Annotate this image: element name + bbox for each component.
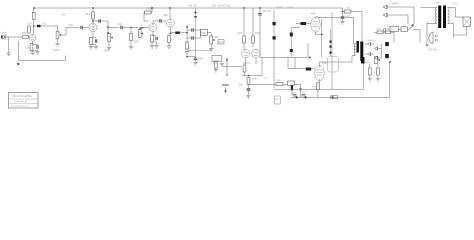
svg-text:250K: 250K: [104, 50, 110, 53]
resistor R21: [368, 68, 371, 75]
ground: jack sleeve: [7, 53, 11, 56]
node: tone node mid: [107, 32, 109, 34]
resistor R9 cathode: [151, 35, 154, 42]
wire: R10 legs: [168, 33, 170, 45]
diode D4: [375, 56, 378, 59]
resistor R10 cathode: [168, 36, 171, 43]
capacitor C4 grid: [81, 26, 82, 30]
wire: PI node vertical: [186, 25, 188, 43]
tube V1 triode: [29, 34, 36, 41]
node: plate junction: [33, 25, 35, 27]
node: bus blob: [17, 63, 19, 65]
svg-text:100K: 100K: [276, 80, 282, 82]
ground: VR4: [209, 48, 213, 51]
tube V2 triode: [89, 24, 97, 32]
input jack J1: [1, 35, 7, 40]
svg-text:Schematic (c): Schematic (c): [15, 100, 28, 103]
wire: VR4 bottom: [210, 44, 212, 48]
transformer T2 power core bar 1: [438, 6, 441, 29]
ground: V3 cathode: [150, 46, 154, 49]
wire: V3 cathode: [152, 32, 154, 36]
wire: VR2 to ground: [108, 41, 110, 47]
svg-text:to V3: to V3: [277, 6, 283, 9]
transformer T2 power core bar 2: [443, 6, 446, 29]
wire: PI plate drop right: [252, 8, 254, 36]
jack: speaker jack 2: [383, 13, 387, 17]
capacitor C25 tick: [329, 52, 331, 54]
svg-text:chassis: chassis: [313, 86, 321, 88]
ground: small left: [220, 64, 224, 67]
wire: T1 lower lead: [352, 56, 356, 63]
ground: bypass cap: [35, 52, 39, 55]
node: P2 top dot: [309, 57, 311, 59]
plug: AC plug: [429, 33, 438, 44]
svg-text:100K: 100K: [85, 14, 91, 16]
svg-text:100K: 100K: [237, 32, 243, 35]
wire: R12 to tube a: [243, 43, 245, 50]
svg-text:56K: 56K: [239, 85, 244, 87]
diode D1: [368, 42, 371, 45]
wire: tail to node: [244, 72, 246, 76]
tube P1 power pentode: [311, 17, 320, 32]
resistor R18 dropping: [344, 10, 351, 13]
resistor R24 series: [288, 81, 295, 85]
wire: joining bar: [242, 69, 262, 76]
node: stub dot: [186, 56, 188, 58]
capacitor C16 vertical: [194, 58, 198, 59]
capacitor C9 coupling: [160, 19, 161, 23]
node: B+ junction V4 plate: [169, 7, 171, 9]
wire: PI cathode chain: [245, 58, 247, 65]
ground: R7: [129, 47, 133, 50]
wire: VR3 wiper to V3 grid: [145, 27, 149, 29]
wire: ground bus horizontal: [18, 56, 65, 61]
node: decouple dot: [195, 12, 197, 14]
wire: R7 legs: [130, 28, 132, 47]
svg-text:SB-12 Small Box: SB-12 Small Box: [12, 94, 33, 98]
diode D3: [375, 47, 378, 50]
wire: C9 to V4 grid: [162, 20, 167, 22]
wire: jack sleeve drop: [8, 37, 10, 53]
arrow: down tick: [225, 88, 227, 93]
resistor R4 cathode: [30, 44, 33, 51]
capacitor C13 screen: [258, 14, 262, 15]
resistor R1 68K: [23, 36, 29, 39]
node: cathode node: [170, 32, 172, 34]
node: heater tap 1: [296, 97, 298, 99]
transformer T1 output core bar 2: [360, 42, 363, 62]
wire: C7 to R7: [123, 27, 132, 29]
wire: cathode pair links: [33, 44, 38, 52]
wire: R16 ground link: [215, 68, 217, 70]
node: R7 top: [130, 27, 132, 29]
svg-text:6V6: 6V6: [322, 62, 327, 65]
wire: decouple vertical: [195, 8, 197, 57]
wire: R15 to C15 to ground: [248, 85, 250, 96]
wire: filter cap drop: [342, 12, 344, 17]
wire: enclosure bottom: [274, 64, 364, 90]
wire: screen wires: [374, 32, 394, 42]
wire: R13 to tube b: [252, 43, 254, 47]
svg-text:500K: 500K: [133, 41, 139, 44]
svg-text:250 Vdc: 250 Vdc: [212, 5, 222, 8]
wire: caps to box: [187, 30, 201, 38]
wire: C4 to V2: [83, 27, 90, 29]
resistor R8 plate: [145, 11, 152, 14]
ground: C8: [154, 46, 158, 49]
wire: jack to grid resistor: [6, 36, 23, 38]
tube V3 triode: [149, 24, 157, 32]
resistor R23 series: [276, 83, 283, 86]
svg-text:100K: 100K: [146, 8, 152, 11]
resistor R19 screen: [377, 31, 383, 34]
svg-text:325 Vdc: 325 Vdc: [262, 9, 272, 13]
wire: x308 drop: [307, 43, 309, 57]
wire: screen drop lower: [259, 15, 261, 57]
wire: heater bus: [291, 62, 390, 97]
capacitor C32 black square: [385, 42, 389, 46]
capacitor C14b black: [273, 36, 276, 39]
wire: V4 cathode: [170, 27, 172, 33]
svg-text:NFB: NFB: [201, 32, 206, 35]
capacitor C20 black blob: [361, 57, 365, 64]
ground: V1 cathode: [30, 52, 34, 55]
wire: PI plate drop left: [243, 8, 245, 36]
potentiometer VR2 tone: [108, 34, 113, 42]
svg-text:SPKR: SPKR: [392, 3, 399, 6]
svg-text:12AX7: 12AX7: [243, 62, 251, 65]
node: B+ junction screen: [259, 7, 261, 9]
wire: bias link: [222, 66, 242, 68]
wire: tick chain vertical: [330, 30, 332, 56]
node: B+ junction V2 plate: [92, 7, 94, 9]
titleblock: border: [9, 93, 39, 109]
wire: B+ feed from PSU: [361, 12, 363, 42]
wire: jack2 run: [387, 15, 408, 24]
svg-text:to V5: to V5: [287, 6, 293, 9]
wire: pot top from C1: [57, 26, 59, 31]
diode D2: [368, 52, 371, 55]
box: network U1: [201, 30, 208, 36]
wire: V3 cathode links: [152, 35, 157, 45]
ground: C16: [193, 63, 197, 66]
winding: T2 secondary loops: [448, 8, 450, 24]
wire: rectifier links: [365, 44, 382, 58]
svg-text:120 VAC: 120 VAC: [428, 49, 438, 52]
wire: network bottom: [188, 49, 212, 51]
wire: R1 to V1 grid: [28, 36, 29, 38]
svg-text:Bias: Bias: [275, 99, 279, 101]
wire: B+ rail across top: [34, 8, 343, 12]
resistor R7: [130, 34, 133, 41]
wire: rail to V4 plate: [169, 8, 171, 19]
svg-text:16uF: 16uF: [345, 17, 351, 19]
box: shield rounded: [328, 57, 339, 73]
wire: cathode b drop: [256, 58, 262, 69]
wire: C6 to tone network: [101, 21, 108, 27]
svg-text:3.15V: 3.15V: [291, 93, 297, 95]
potentiometer VR4: [210, 34, 215, 44]
node: V2 plate tap: [92, 20, 94, 22]
potentiometer VR3: [138, 28, 144, 38]
capacitor C18 coupling to P2 black: [306, 68, 312, 71]
node: P1 cathode dot: [321, 34, 323, 36]
capacitor C29 black: [291, 85, 293, 90]
resistor R15: [247, 78, 250, 85]
svg-text:.002: .002: [117, 23, 122, 26]
wire: P1 cathode: [316, 19, 322, 57]
capacitor C19 filter: [341, 17, 345, 18]
ground: C19: [340, 22, 344, 25]
wire: hum links: [370, 64, 378, 79]
capacitor C10 coupling black: [175, 32, 180, 34]
svg-text:470: 470: [377, 29, 382, 31]
wire: V1 cathode: [32, 41, 34, 44]
lamp: small circle: [383, 29, 386, 32]
wire: tone node vertical: [107, 27, 109, 33]
svg-text:Revision/Update v2: Revision/Update v2: [11, 105, 30, 108]
wire: jack1 run: [387, 7, 414, 24]
wire: P2 plate up: [320, 62, 353, 65]
ground: PI tail: [246, 96, 250, 99]
wire: rail to R8 to V3 plate: [144, 8, 152, 21]
wire: pilot leads: [454, 17, 467, 38]
tube V4 triode: [167, 19, 175, 27]
transformer T1 output core bar 1: [357, 41, 359, 53]
svg-text:245: 245: [62, 15, 67, 17]
capacitor C27 heater: [293, 95, 297, 96]
ground: hum left: [368, 79, 372, 82]
capacitor C11: [192, 28, 193, 32]
resistor R22: [377, 68, 380, 75]
svg-text:6.3V: 6.3V: [453, 3, 458, 6]
wire: ground bus drop: [17, 41, 19, 61]
potentiometer VR5 hum: [375, 57, 381, 64]
wire: C16 stub: [187, 57, 196, 62]
capacitor C21 black: [290, 33, 293, 37]
node: rail dot V3: [151, 7, 153, 9]
capacitor C26 tick: [194, 16, 196, 18]
capacitor C2 cathode bypass: [37, 45, 38, 49]
wire: T2 secondary leads: [448, 8, 456, 36]
svg-text:340 Vdc: 340 Vdc: [221, 4, 231, 8]
wire: T2 primary leads: [421, 8, 437, 24]
resistor R20 screen 2: [386, 31, 391, 34]
wire: screen drop: [259, 8, 261, 14]
capacitor C15: [247, 89, 251, 90]
wire: C17 leads: [296, 23, 311, 25]
tube P2 power pentode: [315, 65, 324, 80]
wire: pot bottom to bus: [57, 39, 59, 43]
node: heater dot: [389, 61, 391, 63]
jack: speaker jack 1: [383, 5, 387, 9]
node: B+ junction PI plates: [243, 7, 245, 9]
capacitor C30 ticks: [299, 89, 302, 91]
ground: V2 cathode: [89, 47, 93, 50]
wire: grid chain vertical: [291, 27, 300, 56]
wire: arrow drop: [226, 73, 228, 76]
wire: trem line: [249, 84, 301, 97]
svg-text:250K: 250K: [214, 36, 220, 39]
resistor R13 PI plate b: [252, 36, 255, 43]
svg-text:3.15V: 3.15V: [300, 93, 306, 95]
wire: bias feed vertical: [273, 10, 275, 89]
svg-text:5K: 5K: [347, 7, 350, 10]
wire: PSU top rail: [343, 11, 363, 13]
svg-text:Input: Input: [1, 32, 7, 35]
svg-text:.022: .022: [42, 23, 47, 26]
capacitor C12: [192, 36, 193, 40]
capacitor C14 black: [273, 22, 276, 25]
svg-text:AUX: AUX: [219, 41, 224, 44]
svg-text:220K: 220K: [252, 78, 258, 80]
capacitor C24 tick: [329, 46, 331, 48]
wire: P2 cathode leads: [318, 81, 320, 98]
resistor R16 under box: [214, 61, 217, 68]
svg-text:V2B: V2B: [163, 14, 168, 17]
wire: wiper to V2 grid: [62, 28, 80, 36]
resistor R6 cathode: [90, 38, 93, 45]
wire: branch to treble cap: [108, 27, 119, 29]
resistor R17 P2 cathode: [317, 83, 320, 90]
capacitor C1 coupling: [37, 25, 41, 27]
node: B+ junction V3 plate: [151, 7, 153, 9]
svg-text:47uF: 47uF: [365, 63, 371, 65]
node: bias node: [226, 59, 228, 61]
ground: R11: [185, 52, 189, 55]
winding: T1 primary loops: [354, 44, 356, 56]
box: thermistor: [401, 27, 407, 32]
ground: volume pot: [55, 44, 59, 47]
svg-text:470: 470: [386, 29, 391, 31]
svg-text:68K: 68K: [22, 32, 27, 35]
wire: rail to R5 to plate: [92, 8, 94, 24]
potentiometer VR1 volume: [56, 31, 61, 39]
resistor R11: [186, 42, 189, 49]
box: label box out: [218, 40, 224, 44]
ground: C5: [94, 47, 98, 50]
arrow: down arrowhead: [426, 43, 428, 46]
resistor R5 plate: [92, 12, 95, 19]
capacitor C28 heater: [302, 95, 306, 96]
svg-text:25uF: 25uF: [198, 58, 204, 61]
svg-text:V1A: V1A: [27, 23, 32, 26]
svg-text:.02: .02: [264, 78, 268, 80]
svg-text:.005: .005: [68, 24, 73, 27]
capacitor C31 lying: [222, 84, 229, 86]
wire: R11 to ground: [186, 49, 188, 52]
svg-text:1N4007: 1N4007: [366, 40, 374, 42]
wire: to VR3: [131, 27, 138, 29]
wire: C1 to volume pot: [35, 25, 58, 27]
connector: heater lug: [331, 96, 338, 99]
tube V5A phase inverter: [241, 49, 249, 57]
wire: T1 top lead: [354, 43, 356, 45]
capacitor C22 black: [290, 49, 293, 52]
ground: hum right: [376, 79, 380, 82]
svg-text:6V6: 6V6: [311, 13, 316, 16]
wire: P2 grid feed: [260, 57, 310, 68]
capacitor C17 coupling to P1 black: [301, 22, 307, 25]
wire: P1 plate to OT: [316, 16, 354, 43]
capacitor C6 coupling: [99, 19, 100, 23]
box: switch S2: [212, 56, 222, 62]
wire: box to VR4: [207, 32, 211, 34]
resistor R12 PI plate a: [243, 36, 246, 43]
node: PSU rail dot: [342, 11, 344, 13]
capacitor C7 treble: [121, 26, 122, 30]
ground: R10: [167, 46, 171, 49]
wire: enclosure left vertical: [331, 12, 333, 90]
node: B+ junction V1 plate: [33, 7, 35, 9]
wire: arrow drop right: [426, 22, 428, 43]
svg-text:4.7K: 4.7K: [213, 63, 218, 65]
capacitor C23 tick: [329, 41, 331, 43]
wire: left bias branch: [226, 57, 228, 73]
resistor R3 plate 100K: [32, 12, 35, 19]
wire: switch to PT: [415, 30, 421, 43]
wire: V2 plate to tone node: [93, 20, 99, 22]
tube V5B phase inverter: [252, 49, 260, 57]
switch S1: [399, 24, 415, 30]
wire: rail to R3 to plate: [33, 8, 35, 34]
wire: cathode links: [91, 37, 96, 46]
wire: C18 leads: [300, 68, 315, 70]
svg-text:1 MEG: 1 MEG: [52, 49, 60, 52]
wire: V2 cathode: [92, 32, 94, 38]
svg-text:1.5K: 1.5K: [25, 47, 30, 50]
node: tail junction: [248, 75, 250, 77]
lamp: pilot box: [463, 17, 471, 26]
resistor R14 tail: [243, 65, 246, 72]
svg-text:2A: 2A: [391, 28, 394, 31]
svg-text:345 Vdc: 345 Vdc: [188, 5, 198, 8]
ground: VR2: [107, 48, 111, 51]
svg-text:PT: PT: [436, 2, 440, 5]
wire: V3 plate out: [153, 21, 159, 23]
resistor R2 1M grid: [28, 26, 31, 33]
wire: cathode to C10 to PI: [171, 32, 188, 34]
ground: R16: [214, 70, 218, 73]
winding: T2 primary loops: [435, 8, 437, 24]
capacitor C8 bypass: [156, 37, 157, 41]
node: PI input node: [186, 32, 188, 34]
node: upper tap: [186, 26, 188, 28]
wire: C19 to ground: [342, 18, 344, 21]
node: heater tap 2: [305, 97, 307, 99]
box: note box: [275, 96, 281, 104]
fuse F1 box: [390, 27, 399, 32]
node: tone node top: [107, 26, 109, 28]
capacitor C5 bypass: [95, 39, 96, 43]
capacitor C33 black square: [385, 54, 389, 58]
